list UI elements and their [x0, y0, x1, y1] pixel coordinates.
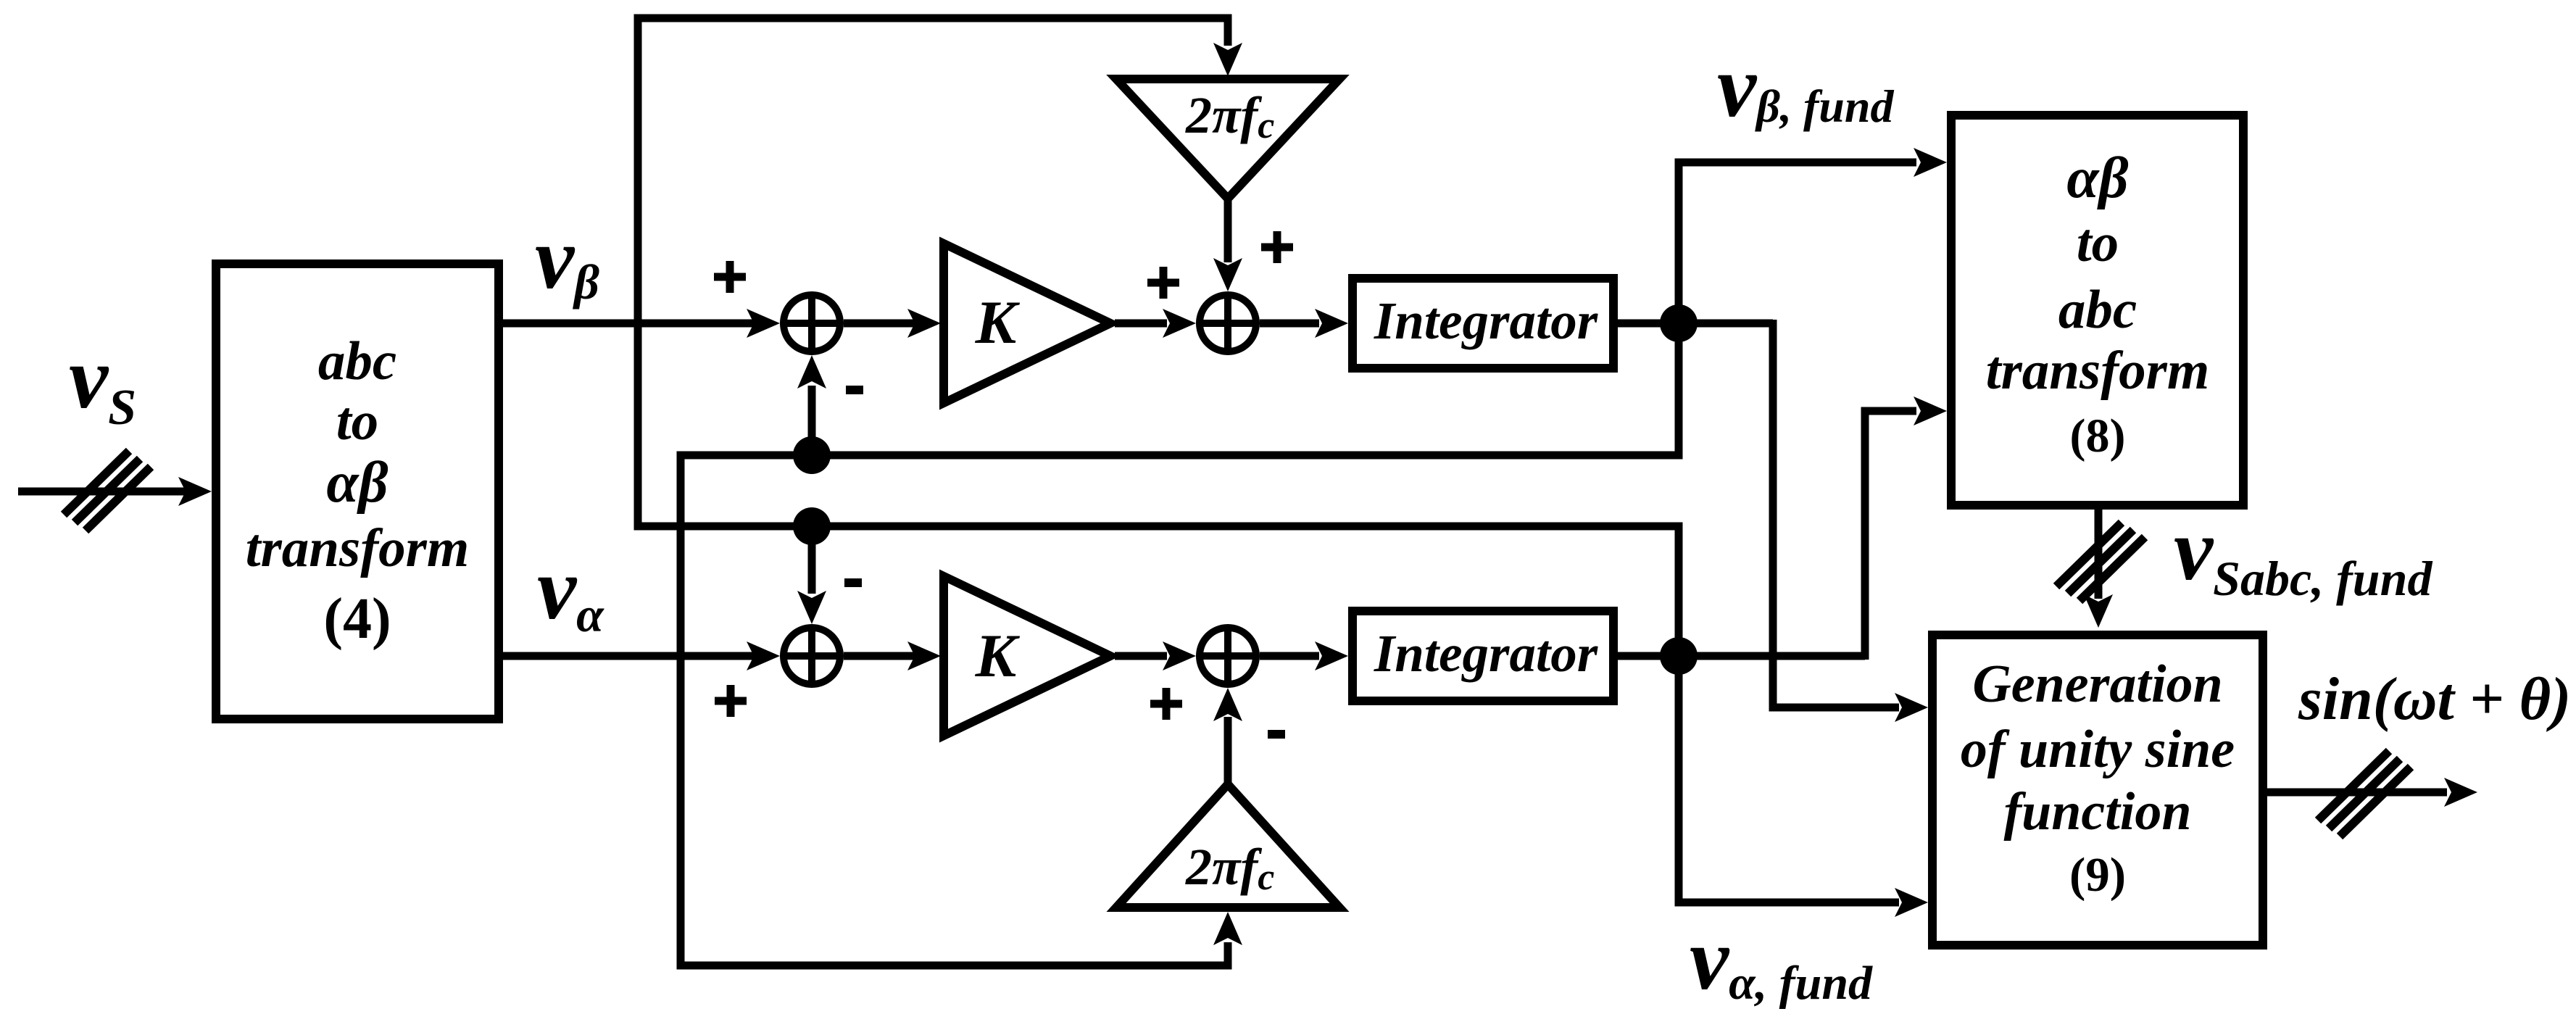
wire feedback B branch down into summer S3	[808, 526, 816, 594]
summer S3 (lower error summer)	[784, 628, 840, 684]
svg-text:transform: transform	[1986, 341, 2209, 401]
svg-text:to: to	[2077, 213, 2119, 273]
svg-text:of unity sine: of unity sine	[1961, 720, 2235, 779]
wire 2pifc lower output to summer S4	[1224, 717, 1232, 784]
svg-text:Integrator: Integrator	[1374, 291, 1598, 350]
wire S2 to upper Integrator	[1260, 320, 1319, 328]
wire valpha from block (4) to summer S3	[503, 652, 754, 660]
label valpha fund	[1690, 910, 1873, 1010]
block upper Integrator	[1353, 278, 1613, 368]
svg-text:(8): (8)	[2070, 410, 2126, 462]
plus sign at summer S3 input	[715, 685, 747, 717]
svg-text:αβ: αβ	[326, 451, 388, 515]
svg-text:αβ: αβ	[2066, 146, 2128, 210]
label vbeta fund	[1717, 38, 1894, 136]
minus sign at summer S4 bottom input	[1268, 730, 1285, 739]
plus sign at summer S1 input	[714, 261, 746, 293]
wire feedback A branch up into summer S1	[808, 386, 816, 455]
label vS	[69, 329, 136, 436]
minus sign at summer S3 feedback input	[844, 578, 862, 587]
svg-text:(4): (4)	[323, 587, 391, 651]
vSabc fund bus slash marks	[2056, 523, 2145, 601]
wire S1 to gain K1	[844, 320, 915, 328]
gain 2pifc lower (upright triangle)	[1116, 784, 1339, 907]
label sin(omega t + theta)	[2298, 665, 2571, 733]
svg-text:sin(ωt + θ): sin(ωt + θ)	[2298, 665, 2571, 733]
junction J1 (vbeta fund node)	[1660, 304, 1698, 342]
block lower Integrator	[1353, 611, 1613, 701]
svg-text:K: K	[975, 288, 1021, 357]
gain K1 (upper)	[944, 244, 1110, 403]
svg-text:Integrator: Integrator	[1374, 624, 1598, 683]
plus sign at summer S2 input	[1147, 267, 1179, 299]
wire lower Integrator output to corner	[1618, 652, 1865, 660]
wire S3 to gain K2	[844, 652, 915, 660]
block alphabeta to abc transform (8)	[1951, 115, 2243, 505]
label valpha	[537, 540, 604, 642]
wire 2pifc upper output to summer S2	[1224, 199, 1232, 262]
wire K2 to summer S4	[1115, 652, 1167, 660]
svg-text:K: K	[975, 622, 1021, 690]
gain 2pifc upper (inverted triangle)	[1116, 79, 1339, 199]
summer S4 (lower)	[1200, 628, 1256, 684]
wire valpha fund from J2 to block (8)	[1865, 411, 1916, 660]
wire vS input	[18, 488, 186, 496]
plus sign at summer S2 top input	[1261, 231, 1293, 263]
junction dot on feedback B at lower summer branch	[793, 507, 831, 545]
wire feedback A from J1 to lower 2pifc input	[681, 323, 1679, 965]
label vSabc fund	[2174, 501, 2432, 606]
svg-text:to: to	[336, 391, 378, 452]
output bus slash marks	[2318, 751, 2411, 836]
wire vSabc fund from block (8) to block (9)	[2095, 510, 2103, 599]
svg-text:abc: abc	[2058, 280, 2137, 340]
vS bus slash marks	[64, 451, 151, 531]
wire K1 to summer S2	[1115, 320, 1167, 328]
minus sign at summer S1 feedback input	[846, 386, 863, 394]
wire from J1 corner down to block (9) first input	[1773, 320, 1899, 707]
wire vbeta from block (4) to summer S1	[503, 320, 754, 328]
svg-text:(9): (9)	[2069, 848, 2126, 902]
wire from J2 down to block (9) second input	[1679, 656, 1899, 902]
wire sine output from block (9)	[2267, 789, 2447, 797]
block Generation of unity sine function (9)	[1932, 635, 2263, 945]
wire feedback B from J2 to upper 2pifc input	[638, 18, 1679, 656]
label vbeta	[535, 209, 599, 309]
svg-text:Generation: Generation	[1972, 655, 2222, 714]
svg-text:function: function	[2003, 782, 2191, 842]
wire vbeta fund from J1 to block (8)	[1679, 162, 1916, 323]
svg-text:abc: abc	[318, 331, 396, 391]
wire S4 to lower Integrator	[1260, 652, 1319, 660]
summer S2 (upper)	[1200, 295, 1256, 352]
svg-text:transform: transform	[246, 518, 469, 578]
junction J2 (valpha fund node)	[1660, 637, 1698, 675]
plus sign at summer S4 input	[1150, 688, 1182, 720]
summer S1 (upper error summer)	[784, 295, 840, 352]
junction dot on feedback A at upper summer branch	[793, 436, 831, 474]
gain K2 (lower)	[944, 576, 1110, 736]
block abc to alphabeta transform (4)	[216, 264, 499, 719]
wire upper Integrator output to corner	[1618, 320, 1773, 328]
